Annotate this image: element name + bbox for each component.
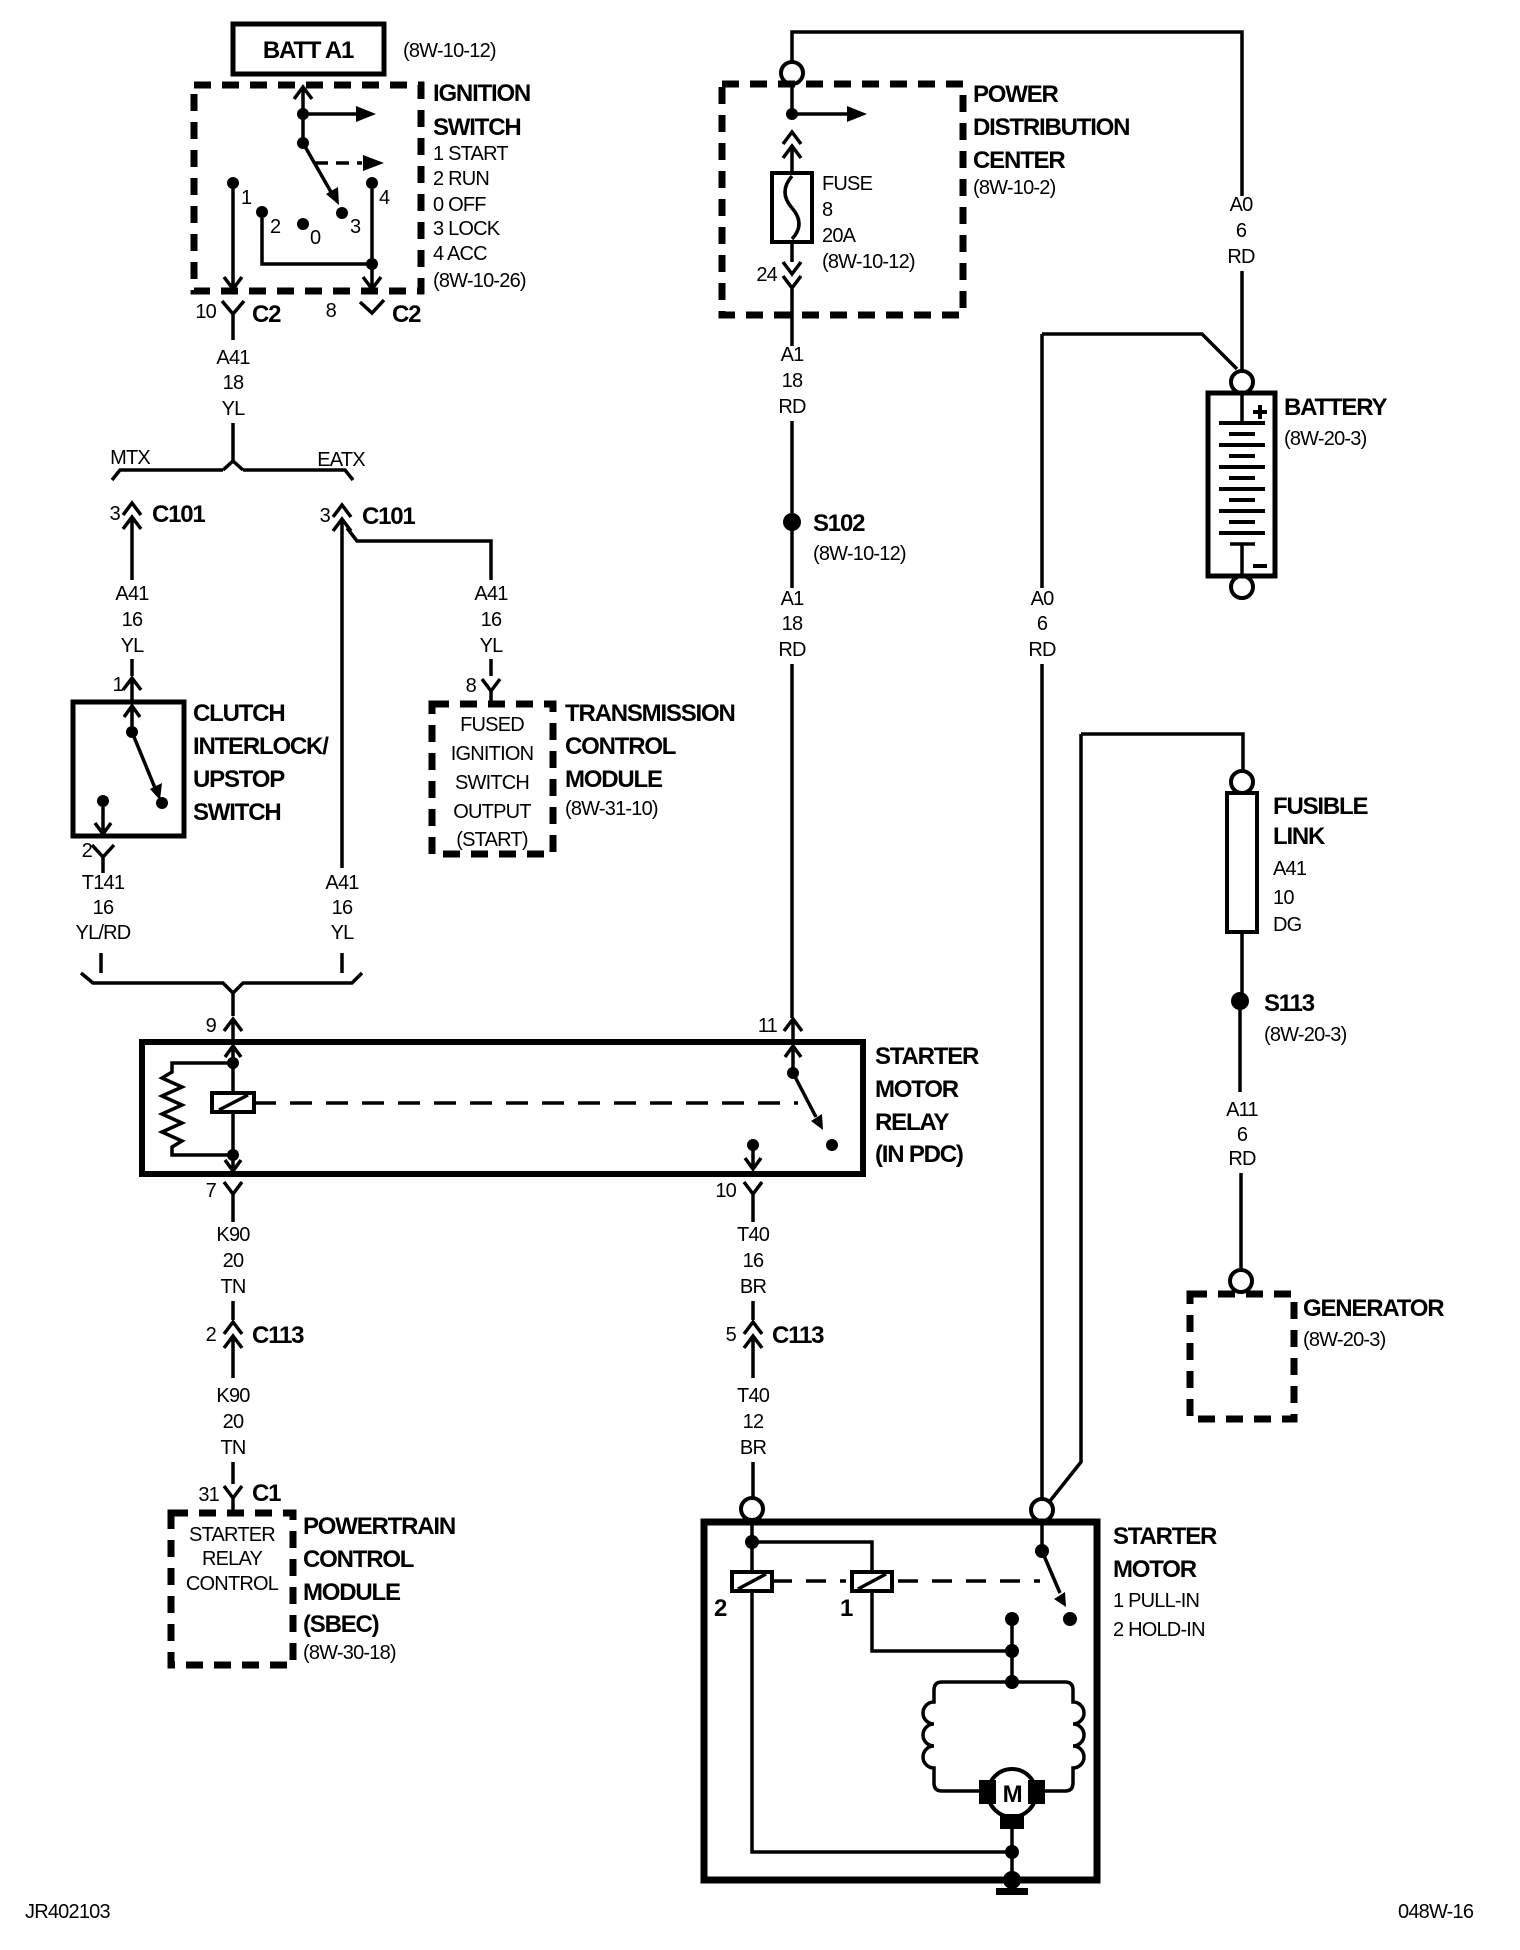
starter motor box [704, 1522, 1097, 1880]
svg-text:A41: A41 [216, 347, 250, 369]
svg-text:C2: C2 [392, 301, 421, 328]
svg-text:MOTOR: MOTOR [1113, 1556, 1197, 1583]
svg-text:RD: RD [1227, 246, 1255, 268]
battery ring terminal top [1231, 371, 1253, 393]
svg-text:IGNITION: IGNITION [451, 743, 534, 765]
svg-text:RD: RD [778, 639, 806, 661]
motor feed wire [1010, 1619, 1014, 1682]
svg-text:A0: A0 [1230, 194, 1254, 216]
svg-text:SWITCH: SWITCH [193, 799, 280, 826]
solenoid switch arm [1042, 1551, 1060, 1593]
svg-text:CONTROL: CONTROL [186, 1573, 279, 1595]
long wire A0 to starter [1040, 664, 1044, 1499]
contact 1 [227, 177, 239, 189]
PDC double chevron up [783, 132, 801, 173]
starter ring terminal right [1031, 1499, 1053, 1521]
svg-text:A1: A1 [781, 344, 805, 366]
BATT A1 feed box [233, 24, 384, 74]
PDC double chevron down [783, 242, 801, 346]
svg-text:12: 12 [743, 1411, 764, 1433]
svg-text:A41: A41 [1273, 858, 1307, 880]
svg-text:C101: C101 [152, 501, 205, 528]
contact 4 [366, 177, 378, 189]
solenoid open contact node [1063, 1612, 1077, 1626]
svg-text:YL: YL [222, 398, 246, 420]
relay pin7 exit arrow [225, 1155, 241, 1171]
svg-text:20A: 20A [822, 225, 857, 247]
battery ring terminal bottom [1231, 576, 1253, 598]
svg-text:CLUTCH: CLUTCH [193, 700, 284, 727]
svg-text:(8W-20-3): (8W-20-3) [1284, 428, 1367, 450]
wire C101 to TCM branch [347, 528, 491, 580]
wire relay pin10 down [751, 1212, 755, 1222]
svg-text:BATTERY: BATTERY [1284, 394, 1387, 421]
relay node top [227, 1057, 239, 1069]
switch wiper arm toward position 3 [303, 143, 331, 192]
svg-text:MOTOR: MOTOR [875, 1076, 959, 1103]
svg-text:K90: K90 [216, 1224, 250, 1246]
svg-text:S113: S113 [1264, 990, 1315, 1017]
wire to battery positive [1240, 271, 1244, 372]
svg-text:2: 2 [270, 216, 281, 238]
starter dashed actuator line [772, 1579, 846, 1583]
fusible link ring terminal [1231, 771, 1253, 793]
relay coil wires [231, 1063, 235, 1155]
starter ring terminal left [741, 1498, 763, 1520]
svg-text:0: 0 [310, 227, 321, 249]
svg-text:9: 9 [206, 1015, 217, 1037]
svg-text:8: 8 [326, 300, 337, 322]
svg-text:6: 6 [1236, 220, 1247, 242]
wire to C113 right [751, 1301, 755, 1320]
svg-text:6: 6 [1037, 613, 1048, 635]
relay node bottom [227, 1149, 239, 1161]
svg-text:T40: T40 [737, 1385, 770, 1407]
wire split MTX/EATX (bird foot) [112, 452, 353, 480]
junction node (2-4 tie) [366, 258, 378, 270]
svg-text:16: 16 [481, 609, 502, 631]
svg-text:A41: A41 [115, 583, 149, 605]
svg-text:2: 2 [714, 1595, 727, 1622]
svg-text:16: 16 [122, 609, 143, 631]
svg-text:BR: BR [740, 1437, 767, 1459]
svg-text:A11: A11 [1226, 1099, 1258, 1121]
battery + stem [1240, 393, 1244, 421]
svg-text:3: 3 [320, 505, 331, 527]
svg-text:1 PULL-IN: 1 PULL-IN [1113, 1590, 1199, 1612]
clutch output wire w/ arrowhead [95, 807, 111, 834]
wire below S102 [790, 531, 794, 588]
relay dashed actuator line [254, 1101, 798, 1105]
ignition switch feed wire w/ open arrowhead up [294, 87, 312, 143]
clutch wiper arm [132, 732, 155, 788]
battery box [1208, 393, 1275, 576]
svg-text:A1: A1 [781, 588, 805, 610]
svg-text:7: 7 [206, 1180, 217, 1202]
svg-text:3: 3 [110, 503, 121, 525]
svg-text:TRANSMISSION: TRANSMISSION [565, 700, 735, 727]
battery plus [1253, 405, 1267, 419]
wire tie to pin8 w/ open arrowhead down [363, 264, 381, 289]
clutch interlock/upstop switch box [73, 702, 184, 836]
motor brush left [979, 1780, 996, 1804]
clutch output node [97, 795, 109, 807]
junction node (feed to run arrow) [297, 108, 309, 120]
svg-text:(SBEC): (SBEC) [303, 1611, 379, 1638]
wire to TCM pin 8 [489, 659, 493, 676]
svg-text:048W-16: 048W-16 [1398, 1901, 1474, 1923]
svg-text:18: 18 [782, 613, 803, 635]
svg-text:(8W-10-12): (8W-10-12) [813, 543, 906, 565]
svg-text:(START): (START) [456, 829, 528, 851]
svg-text:20: 20 [223, 1250, 244, 1272]
svg-text:TN: TN [220, 1437, 245, 1459]
splice S113 [1231, 992, 1249, 1010]
svg-text:2 HOLD-IN: 2 HOLD-IN [1113, 1619, 1205, 1641]
ground junction node [1005, 1845, 1019, 1859]
svg-text:MODULE: MODULE [565, 766, 663, 793]
wire to starter terminal [751, 1462, 755, 1497]
connector pin8 TCM (Y symbol) [482, 679, 500, 704]
svg-text:24: 24 [756, 264, 777, 286]
svg-text:RD: RD [1228, 1148, 1256, 1170]
connector C2 pin10 (Y symbol) [222, 301, 244, 340]
svg-text:C1: C1 [252, 1480, 281, 1507]
svg-text:A0: A0 [1031, 588, 1055, 610]
PDC dashed box [722, 84, 963, 315]
svg-text:10: 10 [715, 1180, 736, 1202]
wire A41 down to split [231, 423, 235, 452]
svg-text:T40: T40 [737, 1224, 770, 1246]
clutch switch feed arrow [124, 706, 140, 732]
wire merge bracket to relay pin 9 [81, 973, 362, 1016]
connector C101 MTX (double chevron) [123, 503, 141, 580]
svg-text:2 RUN: 2 RUN [433, 168, 489, 190]
svg-text:SWITCH: SWITCH [455, 772, 529, 794]
svg-text:0 OFF: 0 OFF [433, 194, 486, 216]
wire to generator [1239, 1173, 1243, 1271]
PDC feed wire [790, 84, 794, 114]
relay coil box [212, 1093, 254, 1112]
relay switch common node [787, 1067, 799, 1079]
svg-text:RELAY: RELAY [202, 1548, 263, 1570]
svg-text:MTX: MTX [110, 447, 150, 469]
splice S102 [783, 513, 801, 531]
motor feed node mid [1005, 1644, 1019, 1658]
solid arrow to RUN [303, 112, 357, 116]
svg-text:10: 10 [195, 301, 216, 323]
battery junction wire [1042, 334, 1237, 369]
svg-text:(8W-10-12): (8W-10-12) [403, 40, 496, 62]
svg-text:10: 10 [1273, 887, 1294, 909]
svg-text:M: M [1003, 1781, 1022, 1808]
svg-text:CENTER: CENTER [973, 147, 1065, 174]
svg-text:GENERATOR: GENERATOR [1303, 1295, 1444, 1322]
svg-text:A41: A41 [474, 583, 508, 605]
wire below S113 [1238, 1010, 1242, 1092]
contact 3 [336, 207, 348, 219]
svg-text:16: 16 [332, 897, 353, 919]
svg-text:(8W-20-3): (8W-20-3) [1303, 1329, 1386, 1351]
svg-text:3: 3 [350, 216, 361, 238]
svg-text:EATX: EATX [317, 449, 365, 471]
svg-text:TN: TN [220, 1276, 245, 1298]
relay output contact node [747, 1139, 759, 1151]
wire stub A41 [340, 953, 344, 973]
battery - stem [1230, 544, 1255, 576]
top feed wire [792, 32, 1242, 196]
PCM dashed box [171, 1513, 293, 1665]
svg-text:(IN PDC): (IN PDC) [875, 1141, 963, 1168]
TCM dashed box [432, 704, 553, 854]
svg-text:16: 16 [743, 1250, 764, 1272]
svg-text:31: 31 [198, 1484, 219, 1506]
svg-text:4 ACC: 4 ACC [433, 243, 487, 265]
svg-text:SWITCH: SWITCH [433, 114, 520, 141]
svg-text:(8W-20-3): (8W-20-3) [1264, 1024, 1347, 1046]
svg-text:DISTRIBUTION: DISTRIBUTION [973, 114, 1129, 141]
svg-text:FUSE: FUSE [822, 173, 873, 195]
svg-text:6: 6 [1237, 1124, 1248, 1146]
wire to clutch pin 1 [130, 659, 134, 676]
connector pin9 (chevron) [224, 1019, 242, 1042]
long wire to relay pin 11 [790, 664, 794, 1018]
field winding right [1012, 1682, 1084, 1791]
clutch pivot node [126, 726, 138, 738]
fuse 8 [772, 173, 812, 242]
motor winding top node [1005, 1675, 1019, 1689]
fusible link feed wire [1050, 734, 1243, 1501]
svg-text:5: 5 [726, 1324, 737, 1346]
battery minus [1253, 564, 1267, 568]
ground node [1003, 1871, 1021, 1889]
connector C113 right (double chevron) [744, 1322, 762, 1378]
svg-text:RD: RD [1028, 639, 1056, 661]
svg-text:11: 11 [758, 1015, 778, 1037]
wire contact1 to pin10 w/ open arrowhead down [224, 189, 242, 289]
connector C2 pin8 (V symbol) [360, 300, 384, 313]
svg-text:C113: C113 [772, 1322, 824, 1349]
wire A0 down-left branch [1040, 334, 1044, 588]
svg-text:IGNITION: IGNITION [433, 80, 530, 107]
svg-text:UPSTOP: UPSTOP [193, 766, 285, 793]
svg-text:18: 18 [782, 370, 803, 392]
svg-text:3 LOCK: 3 LOCK [433, 218, 501, 240]
pull-in coil box 1 [852, 1572, 892, 1591]
PDC junction node [786, 108, 798, 120]
motor feed node top [1005, 1612, 1019, 1626]
svg-text:S102: S102 [813, 510, 865, 537]
svg-text:1: 1 [113, 674, 124, 696]
svg-text:YL: YL [121, 635, 145, 657]
svg-text:YL: YL [331, 922, 355, 944]
svg-text:18: 18 [223, 372, 244, 394]
connector pin1 clutch (chevron) [123, 678, 141, 702]
svg-text:20: 20 [223, 1411, 244, 1433]
svg-text:C101: C101 [362, 503, 415, 530]
starter node pin feed [745, 1535, 759, 1549]
svg-text:RD: RD [778, 396, 806, 418]
wire contact2 down [262, 218, 372, 264]
motor armature [988, 1769, 1036, 1817]
svg-text:JR402103: JR402103 [25, 1901, 110, 1923]
svg-text:(8W-10-12): (8W-10-12) [822, 251, 915, 273]
wire fusible to S113 [1240, 932, 1244, 993]
svg-text:BATT A1: BATT A1 [263, 37, 354, 64]
svg-text:CONTROL: CONTROL [565, 733, 676, 760]
starter motor relay box [142, 1042, 863, 1174]
solenoid common node [1035, 1544, 1049, 1558]
ground bar [996, 1888, 1028, 1895]
svg-text:K90: K90 [216, 1385, 250, 1407]
clutch contact node [156, 797, 168, 809]
svg-text:DG: DG [1273, 914, 1302, 936]
relay switch arm [793, 1073, 816, 1117]
svg-text:(8W-30-18): (8W-30-18) [303, 1642, 396, 1664]
generator dashed box [1190, 1294, 1294, 1419]
hold-in coil wire [752, 1542, 1011, 1852]
wire to C1 [231, 1462, 235, 1484]
connector C101 EATX (double chevron) [333, 505, 351, 868]
generator ring terminal [1230, 1270, 1252, 1292]
svg-text:OUTPUT: OUTPUT [453, 801, 531, 823]
contact 2 [256, 206, 268, 218]
fusible link body [1227, 793, 1257, 932]
relay pin11 entry arrow [785, 1046, 801, 1072]
svg-text:STARTER: STARTER [875, 1043, 979, 1070]
svg-text:(8W-31-10): (8W-31-10) [565, 798, 658, 820]
PDC branch arrow [792, 112, 848, 116]
wire to S102 [790, 421, 794, 513]
svg-text:POWERTRAIN: POWERTRAIN [303, 1513, 455, 1540]
svg-text:INTERLOCK/: INTERLOCK/ [193, 733, 329, 760]
svg-text:16: 16 [93, 897, 114, 919]
svg-text:FUSIBLE: FUSIBLE [1273, 793, 1368, 820]
svg-text:(8W-10-2): (8W-10-2) [973, 177, 1056, 199]
pull-in coil branch [752, 1542, 1011, 1651]
hold-in coil box 2 [732, 1572, 772, 1591]
connector C1 (Y symbol) [224, 1486, 242, 1513]
svg-text:YL: YL [480, 635, 504, 657]
svg-text:C2: C2 [252, 301, 281, 328]
relay pin9 entry arrow [225, 1046, 241, 1063]
wire stub T141 [99, 953, 103, 973]
motor ground wire [1010, 1829, 1014, 1880]
battery cell plates [1219, 423, 1265, 533]
svg-text:STARTER: STARTER [189, 1524, 275, 1546]
dashed arrow (ACC direction) [315, 161, 362, 165]
svg-text:YL/RD: YL/RD [76, 922, 131, 944]
contact 0 [297, 218, 309, 230]
motor brush right [1028, 1780, 1045, 1804]
relay open contact node [826, 1139, 838, 1151]
ring terminal PDC [781, 62, 803, 84]
svg-text:RELAY: RELAY [875, 1109, 949, 1136]
wire contact4 down [370, 189, 374, 264]
relay resistor branch [162, 1063, 233, 1155]
ignition switch dashed box [194, 85, 421, 291]
svg-text:1 START: 1 START [433, 143, 508, 165]
svg-text:FUSED: FUSED [460, 714, 524, 736]
svg-text:BR: BR [740, 1276, 767, 1298]
svg-text:(8W-10-26): (8W-10-26) [433, 270, 526, 292]
svg-text:1: 1 [241, 187, 252, 209]
svg-text:2: 2 [82, 840, 93, 862]
connector pin7 (Y symbol) [224, 1182, 242, 1222]
relay pin10 exit arrow [745, 1145, 761, 1169]
svg-text:T141: T141 [82, 872, 125, 894]
svg-text:LINK: LINK [1273, 823, 1326, 850]
connector pin11 (chevron) [784, 1019, 802, 1042]
svg-text:2: 2 [206, 1324, 217, 1346]
starter solenoid feed [750, 1521, 754, 1542]
svg-text:CONTROL: CONTROL [303, 1546, 414, 1573]
svg-text:1: 1 [840, 1595, 853, 1622]
svg-text:4: 4 [379, 187, 390, 209]
connector pin10 (Y symbol) [744, 1182, 762, 1212]
motor brush bottom [1000, 1814, 1024, 1829]
connector pin2 clutch (Y symbol) [92, 845, 114, 873]
svg-text:8: 8 [466, 675, 477, 697]
svg-text:STARTER: STARTER [1113, 1523, 1217, 1550]
svg-text:MODULE: MODULE [303, 1579, 401, 1606]
junction node (wiper pivot) [297, 137, 309, 149]
wire to C113 [231, 1301, 235, 1320]
solenoid contact feed [1040, 1522, 1044, 1545]
svg-text:8: 8 [822, 199, 833, 221]
svg-text:A41: A41 [325, 872, 359, 894]
connector C113 left (double chevron) [224, 1322, 242, 1378]
svg-text:POWER: POWER [973, 81, 1059, 108]
field winding left [923, 1682, 1012, 1791]
svg-text:C113: C113 [252, 1322, 304, 1349]
